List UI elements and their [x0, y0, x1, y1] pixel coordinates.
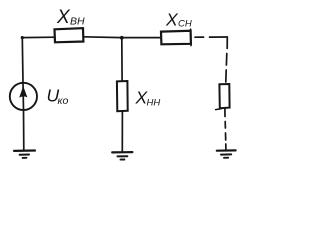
ground middle — [112, 151, 132, 153]
wire left branch upper — [21, 38, 24, 83]
node junction — [120, 36, 124, 40]
wire dashed vertical — [226, 54, 227, 83]
pin right box bottom edge overshoot — [216, 108, 221, 111]
resistor XCH box — [161, 31, 191, 45]
resistor XBH box — [55, 28, 84, 42]
wire middle branch upper — [121, 38, 123, 81]
wire dashed horizontal — [195, 36, 227, 38]
wire stub below right box — [224, 108, 226, 116]
ground right — [217, 149, 236, 152]
wire junction to XCH — [122, 37, 161, 39]
wire dashed below right box — [224, 122, 227, 151]
node left corner — [21, 36, 24, 39]
arrow head inside source — [19, 86, 27, 98]
wire corner down solid — [226, 37, 228, 48]
svg-text:X: X — [165, 10, 179, 30]
svg-text:ко: ко — [58, 95, 69, 107]
wire middle branch lower — [121, 111, 123, 152]
wire between XBH and junction — [83, 36, 121, 39]
wire left branch lower — [23, 110, 25, 151]
wire top bus left segment — [22, 36, 55, 38]
ground left — [14, 149, 35, 152]
svg-text:ВН: ВН — [70, 16, 85, 28]
source U circle — [10, 83, 37, 110]
svg-text:СН: СН — [178, 19, 192, 30]
wire through source — [22, 83, 25, 110]
pin XCH right edge overshoot — [190, 29, 192, 45]
resistor XHH box — [117, 81, 128, 111]
svg-text:X: X — [56, 7, 71, 28]
resistor right box — [219, 84, 229, 108]
svg-text:НН: НН — [147, 98, 161, 109]
